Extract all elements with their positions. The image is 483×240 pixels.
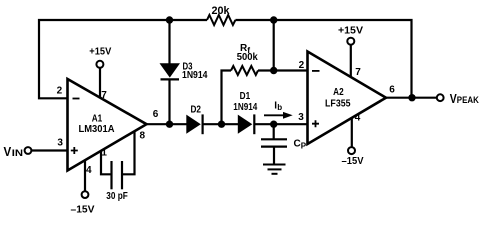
svg-text:8: 8 <box>140 131 146 142</box>
svg-text:1N914: 1N914 <box>233 102 257 113</box>
svg-text:6: 6 <box>153 109 159 120</box>
svg-text:7: 7 <box>355 67 361 78</box>
svg-text:3: 3 <box>298 112 304 123</box>
svg-text:IN: IN <box>12 148 23 158</box>
svg-text:LF355: LF355 <box>325 97 351 109</box>
svg-text:A2: A2 <box>333 86 344 98</box>
svg-text:+15V: +15V <box>89 47 111 58</box>
svg-text:b: b <box>277 103 282 112</box>
svg-text:D1: D1 <box>240 91 251 102</box>
svg-text:4: 4 <box>355 113 361 124</box>
svg-text:P: P <box>301 141 307 150</box>
svg-text:PEAK: PEAK <box>457 95 479 105</box>
svg-text:D2: D2 <box>190 104 201 115</box>
svg-text:2: 2 <box>299 60 305 71</box>
svg-text:2: 2 <box>57 86 63 97</box>
svg-text:–15V: –15V <box>342 156 364 167</box>
svg-text:V: V <box>4 144 12 159</box>
svg-text:30 pF: 30 pF <box>106 191 128 202</box>
svg-text:1: 1 <box>101 147 107 158</box>
svg-text:500k: 500k <box>237 52 258 63</box>
svg-text:C: C <box>294 138 301 149</box>
svg-text:4: 4 <box>86 165 92 176</box>
svg-text:+15V: +15V <box>338 25 363 36</box>
svg-text:LM301A: LM301A <box>79 123 115 135</box>
svg-text:7: 7 <box>101 90 107 101</box>
svg-text:1N914: 1N914 <box>182 70 208 81</box>
svg-text:–15V: –15V <box>71 205 95 214</box>
svg-text:20k: 20k <box>212 5 231 17</box>
svg-text:3: 3 <box>57 138 63 149</box>
svg-text:6: 6 <box>389 85 395 96</box>
